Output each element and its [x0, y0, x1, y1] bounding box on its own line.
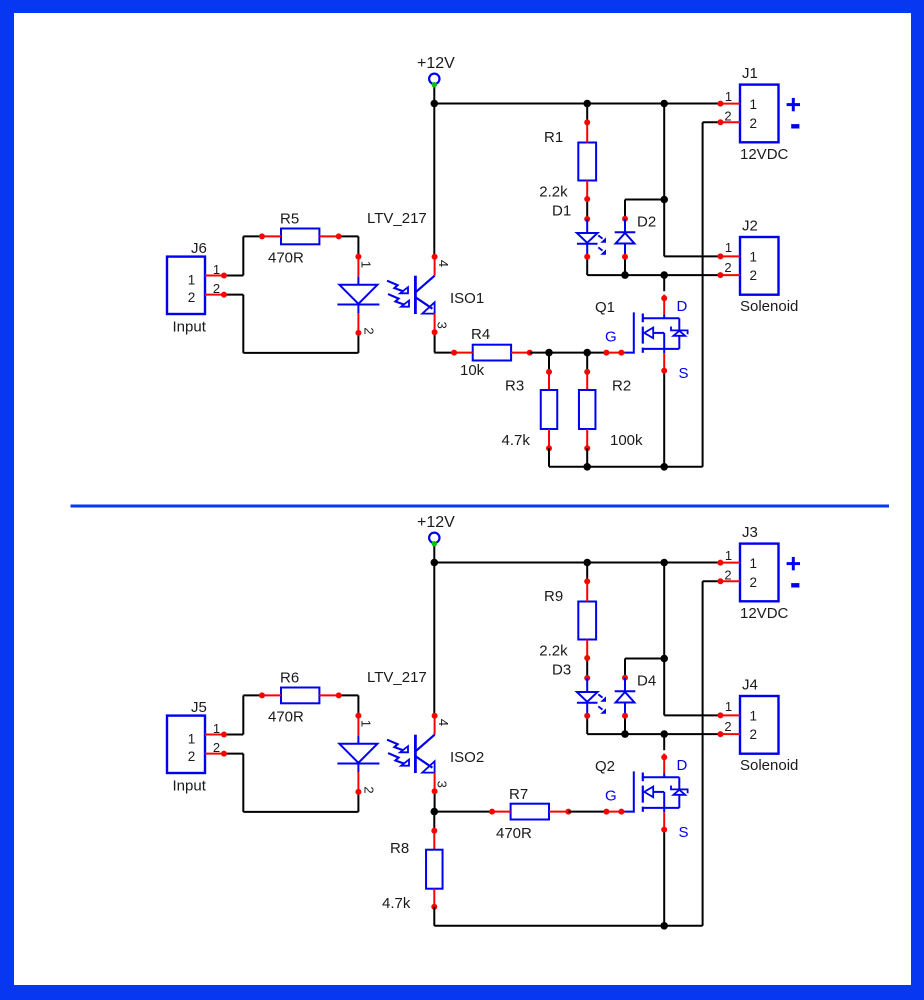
svg-text:2: 2 [749, 268, 757, 283]
svg-text:D1: D1 [552, 203, 571, 220]
svg-text:R1: R1 [544, 129, 563, 146]
svg-text:LTV_217: LTV_217 [367, 210, 427, 227]
svg-text:2: 2 [362, 327, 377, 334]
svg-text:1: 1 [213, 721, 220, 736]
svg-text:Input: Input [173, 778, 207, 795]
svg-text:4: 4 [436, 260, 451, 267]
svg-text:D: D [677, 298, 688, 315]
svg-text:G: G [605, 788, 617, 805]
svg-text:3: 3 [435, 322, 450, 329]
svg-text:2: 2 [749, 575, 757, 590]
svg-text:R7: R7 [509, 786, 528, 803]
svg-text:J2: J2 [742, 218, 758, 235]
svg-text:D: D [677, 757, 688, 774]
svg-text:2: 2 [724, 568, 731, 583]
svg-text:R3: R3 [505, 378, 524, 395]
svg-text:1: 1 [749, 250, 757, 265]
svg-text:J1: J1 [742, 65, 758, 82]
svg-text:R8: R8 [390, 840, 409, 857]
svg-text:S: S [679, 365, 689, 382]
svg-text:4: 4 [436, 719, 451, 726]
svg-text:1: 1 [188, 732, 196, 747]
svg-text:2: 2 [362, 786, 377, 793]
svg-text:Q2: Q2 [595, 758, 615, 775]
svg-text:470R: 470R [268, 709, 304, 726]
svg-text:R4: R4 [471, 326, 490, 343]
svg-text:LTV_217: LTV_217 [367, 669, 427, 686]
svg-text:D2: D2 [637, 214, 656, 231]
svg-text:D3: D3 [552, 662, 571, 679]
svg-text:1: 1 [749, 709, 757, 724]
svg-text:2: 2 [724, 719, 731, 734]
svg-text:2: 2 [188, 290, 196, 305]
svg-text:10k: 10k [460, 362, 485, 379]
svg-text:ISO1: ISO1 [450, 290, 484, 307]
svg-text:1: 1 [749, 556, 757, 571]
svg-text:Solenoid: Solenoid [740, 298, 798, 315]
svg-text:1: 1 [749, 97, 757, 112]
svg-text:100k: 100k [610, 432, 643, 449]
svg-text:S: S [679, 824, 689, 841]
svg-text:R5: R5 [280, 211, 299, 228]
svg-text:Q1: Q1 [595, 299, 615, 316]
svg-text:R6: R6 [280, 670, 299, 687]
svg-text:ISO2: ISO2 [450, 749, 484, 766]
svg-text:3: 3 [435, 781, 450, 788]
svg-text:J6: J6 [191, 240, 207, 257]
svg-text:1: 1 [188, 273, 196, 288]
svg-text:2: 2 [213, 740, 220, 755]
svg-text:+12V: +12V [417, 514, 455, 531]
svg-text:2.2k: 2.2k [539, 184, 568, 201]
svg-text:G: G [605, 329, 617, 346]
svg-text:2: 2 [188, 749, 196, 764]
svg-text:2: 2 [724, 109, 731, 124]
svg-text:12VDC: 12VDC [740, 605, 789, 622]
svg-text:1: 1 [359, 261, 374, 268]
svg-text:R2: R2 [612, 378, 631, 395]
svg-text:2.2k: 2.2k [539, 643, 568, 660]
svg-text:D4: D4 [637, 673, 656, 690]
svg-text:Solenoid: Solenoid [740, 757, 798, 774]
svg-text:J4: J4 [742, 677, 758, 694]
svg-text:1: 1 [725, 240, 732, 255]
svg-text:1: 1 [359, 720, 374, 727]
svg-text:12VDC: 12VDC [740, 146, 789, 163]
svg-text:1: 1 [213, 262, 220, 277]
svg-text:1: 1 [725, 699, 732, 714]
svg-text:Input: Input [173, 319, 207, 336]
svg-text:J3: J3 [742, 524, 758, 541]
svg-text:2: 2 [213, 281, 220, 296]
svg-text:2: 2 [749, 116, 757, 131]
svg-text:470R: 470R [496, 825, 532, 842]
svg-text:470R: 470R [268, 250, 304, 267]
svg-text:4.7k: 4.7k [502, 432, 531, 449]
svg-text:1: 1 [725, 548, 732, 563]
svg-text:2: 2 [749, 727, 757, 742]
svg-text:2: 2 [724, 260, 731, 275]
svg-text:R9: R9 [544, 588, 563, 605]
svg-text:4.7k: 4.7k [382, 895, 411, 912]
svg-text:1: 1 [725, 89, 732, 104]
svg-text:J5: J5 [191, 699, 207, 716]
svg-text:+12V: +12V [417, 55, 455, 72]
